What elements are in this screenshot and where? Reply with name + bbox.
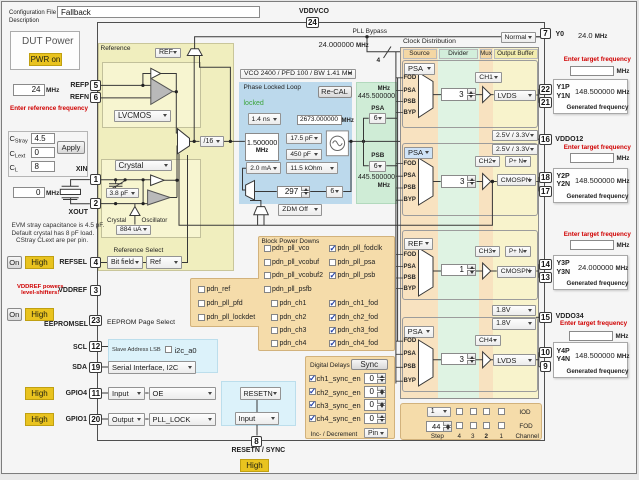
- textbox target y3: [570, 240, 614, 251]
- label ch4 PSB: [404, 364, 416, 370]
- spinner ch2 delay 0: [364, 386, 387, 398]
- checkbox pdn_pll_psb: [329, 272, 336, 279]
- pin 23: [89, 315, 102, 326]
- Y1 output box: [553, 79, 628, 114]
- label MHz y4: [616, 333, 629, 340]
- label XOUT: [60, 209, 88, 216]
- dropdown /16: [200, 136, 225, 148]
- label locked: [244, 100, 264, 107]
- label MHz psb: [370, 183, 390, 189]
- label 24.000000 MHz bypass: [319, 40, 369, 49]
- pin 10: [539, 347, 552, 358]
- node xin a: [114, 178, 117, 181]
- dropdown ch1 source PSA: [404, 63, 435, 75]
- label RESETN / SYNC: [232, 447, 286, 454]
- checkbox fod ch3: [470, 422, 477, 429]
- button On EEPROMSEL: [7, 308, 22, 321]
- label XIN: [67, 166, 88, 173]
- button On REFSEL: [7, 256, 22, 269]
- wire refp: [101, 84, 151, 86]
- label ch3 PSB: [404, 275, 416, 281]
- label Y0: [556, 31, 565, 38]
- wire zdm feedback path: [179, 154, 492, 225]
- wire pin20 gpio1: [102, 418, 109, 420]
- label Description: [9, 18, 39, 24]
- label SDA: [71, 364, 87, 371]
- dropdown CH3: [475, 246, 500, 257]
- wire psa divider taps: [364, 118, 398, 165]
- textbox target y2: [570, 153, 614, 164]
- dropdown PSB 6: [369, 161, 387, 172]
- label ch4 FOD: [404, 338, 417, 344]
- textbox 2673.000000: [297, 115, 342, 126]
- checkbox fod ch4: [456, 422, 463, 429]
- label MHz y3: [617, 242, 630, 249]
- checkbox ch4_sync_en: [309, 415, 316, 422]
- checkbox fod ch2: [483, 422, 490, 429]
- oscillator vco circle: [330, 136, 344, 150]
- bus width slash 4: [384, 47, 392, 59]
- wire xout internal: [101, 203, 148, 205]
- button High RESETN: [240, 459, 269, 473]
- pdn panel left: [190, 278, 259, 328]
- dropdown ch3 P+N-: [505, 246, 531, 257]
- label Step: [431, 433, 444, 440]
- label REFSEL: [58, 259, 87, 266]
- label CLext: [10, 149, 26, 160]
- dropdown Crystal: [115, 160, 172, 172]
- label i2c_a0: [175, 346, 197, 355]
- mux ch4 source: [419, 340, 434, 386]
- label generated y4: [567, 368, 629, 375]
- mux reference select: [178, 129, 190, 154]
- wire ch2 row: [433, 177, 540, 191]
- label ch2 BYP: [404, 197, 416, 203]
- label ch4 PSA: [404, 351, 416, 357]
- textbox target y4: [569, 331, 613, 342]
- node ch2 out: [491, 180, 494, 183]
- node xout c: [142, 202, 145, 205]
- node ps tap: [362, 140, 365, 143]
- checkbox pdn_pll_vcobuf: [264, 259, 271, 266]
- spinner ch4 delay 0: [364, 413, 387, 425]
- channel 1 outline: [402, 60, 538, 128]
- pin 3: [90, 285, 101, 296]
- checkbox pdn_pll_psa: [329, 259, 336, 266]
- dropdown LVCMOS: [114, 110, 171, 122]
- pin 15: [539, 312, 552, 323]
- label 445.500000 psb: [358, 174, 395, 181]
- textbox reference frequency 24: [13, 84, 45, 96]
- label VDDO12: [555, 136, 583, 143]
- spinner ch4 divider 3: [441, 353, 476, 365]
- green PS block: [356, 82, 397, 204]
- wire ch4 row: [433, 352, 540, 366]
- button High GPIO4: [25, 387, 54, 400]
- label generated y1: [567, 104, 629, 111]
- label Phase Locked Loop: [244, 84, 301, 91]
- dropdown Pin: [364, 428, 388, 439]
- label CStray: [10, 134, 28, 145]
- checkbox fod ch1: [498, 422, 505, 429]
- label ch3 PSA: [404, 264, 416, 270]
- node crystal join: [175, 179, 178, 182]
- label REFN: [67, 94, 89, 101]
- Y3 output box: [553, 255, 628, 290]
- header Source: [403, 49, 437, 59]
- button Re-CAL: [318, 86, 352, 98]
- dropdown 1.4 ns: [248, 113, 282, 125]
- spinner ch3 divider 1: [441, 264, 476, 276]
- spinner ch3 delay 0: [364, 399, 387, 411]
- buffer funnel zdm: [254, 207, 268, 215]
- wire ch1 input ticks: [396, 78, 403, 113]
- wire resetn to pin8: [256, 400, 258, 436]
- checkbox ch2_sync_en: [309, 388, 316, 395]
- checkbox pdn_pll_pfd: [198, 300, 205, 307]
- capacitor trim arrow: [107, 181, 125, 192]
- divider column band: [438, 48, 480, 398]
- wire funnel right leg to pll direct: [200, 56, 231, 142]
- wire pin12 scl: [102, 346, 109, 348]
- label 3: [471, 433, 475, 440]
- crystal XTAL plates: [62, 186, 79, 199]
- button High EEPROMSEL: [25, 308, 54, 321]
- buffer funnel reference out: [187, 49, 202, 56]
- dropdown ch3 source REF: [404, 238, 433, 250]
- wire crystal buffer out: [164, 146, 177, 198]
- label ch2 PSA: [404, 173, 416, 179]
- label Clock Distribution: [403, 38, 456, 45]
- pin 16: [539, 134, 552, 145]
- label MHz: [46, 87, 59, 94]
- checkbox pdn_ref: [198, 286, 205, 293]
- pin 6: [90, 92, 101, 103]
- dropdown 884 uA: [116, 225, 151, 236]
- node pll in: [229, 140, 232, 143]
- label MHz psa: [370, 86, 390, 92]
- buffer ch4 out: [483, 352, 491, 368]
- dropdown CH2: [475, 156, 500, 167]
- label Inc- / Decrement: [311, 431, 358, 438]
- label Digital Delays: [310, 362, 350, 369]
- dropdown Normal: [501, 32, 537, 43]
- wire ch4 input ticks: [396, 341, 403, 381]
- label ch1 BYP: [404, 110, 416, 116]
- wire ch1 row: [433, 89, 540, 103]
- label 445.500000 psa: [358, 93, 395, 100]
- label SCL: [72, 344, 87, 351]
- label enter target y2: [564, 144, 631, 151]
- dropdown VDDO12 2.5V first: [492, 130, 538, 141]
- checkbox pdn_pll_vcobuf2: [264, 272, 271, 279]
- dropdown Output GPIO1: [108, 413, 145, 426]
- pin 17: [539, 186, 552, 197]
- checkbox pdn_ch3: [271, 327, 278, 334]
- dropdown ch1 LVDS: [494, 90, 537, 101]
- wire ch2 input ticks: [396, 164, 403, 201]
- main diagram border: [97, 22, 545, 441]
- dropdown VCO 2400: [240, 69, 356, 80]
- Reference yellow block: [98, 43, 234, 271]
- wire pin19 sda: [102, 366, 109, 368]
- label Y3P Y3N: [557, 260, 571, 278]
- label VDDO34: [556, 313, 584, 320]
- label VDDREF powers level-shifters: [17, 284, 63, 297]
- label enter target y3: [564, 231, 631, 238]
- checkbox pdn_ch2_fod: [329, 314, 336, 321]
- label ch2 FOD: [404, 161, 417, 167]
- buffer big crystal: [148, 190, 171, 205]
- spinner 297: [277, 186, 310, 198]
- oscillator current source triangle: [130, 207, 140, 216]
- wire big buffer out: [173, 92, 178, 133]
- pin 11: [89, 388, 102, 399]
- wire small buffer out: [161, 74, 177, 92]
- dropdown 450 pF: [286, 149, 321, 160]
- label enter target y1: [564, 56, 631, 63]
- label generated y3: [567, 280, 629, 287]
- pin 13: [539, 272, 552, 283]
- label PSB: [371, 152, 384, 159]
- spinner ch2 divider 3: [441, 175, 477, 187]
- wire pin11 gpio4: [102, 392, 109, 394]
- label Y2P Y2N: [557, 173, 571, 191]
- dropdown CH1: [475, 72, 502, 83]
- buffer ch2 out: [483, 174, 491, 190]
- pdn panel right: [258, 236, 395, 351]
- node mux out: [193, 140, 196, 143]
- dropdown CH4: [475, 335, 501, 346]
- label 4 bus width: [377, 57, 381, 64]
- spinner step 44: [426, 421, 453, 432]
- wire vddo12 pin16: [538, 138, 540, 140]
- dropdown PLL_LOCK: [149, 413, 217, 426]
- mux column band: [479, 48, 493, 398]
- label Slave Address LSB: [112, 347, 161, 353]
- dropdown 6 feedback: [326, 186, 343, 198]
- pin 2: [90, 198, 101, 209]
- label ch4 BYP: [404, 378, 416, 384]
- pin 4: [90, 257, 101, 268]
- note CStray CLext per pin: [16, 237, 88, 244]
- dropdown Ref: [146, 256, 182, 269]
- note EVM stray capacitance: [12, 222, 105, 229]
- checkbox iod ch1: [498, 408, 505, 415]
- checkbox iod ch2: [483, 408, 490, 415]
- label Block Power Downs: [262, 238, 320, 245]
- label MHz crystal: [46, 190, 59, 197]
- label 24.0 MHz: [578, 31, 607, 40]
- wire funnel zdm legs: [251, 200, 265, 225]
- label enter target y4: [560, 320, 627, 327]
- dropdown VDDO12 2.5V second: [492, 144, 538, 155]
- channel 4 outline: [402, 317, 538, 392]
- wire vddo34 pin15: [536, 316, 539, 318]
- label DUT Power: [22, 36, 74, 47]
- PLL blue block: [239, 82, 353, 204]
- channel 3 outline: [402, 230, 538, 300]
- pin 20: [89, 414, 102, 425]
- Y2 output box: [553, 168, 628, 203]
- header Divider: [439, 49, 479, 59]
- label REFP: [67, 82, 89, 89]
- node xin c: [142, 178, 145, 181]
- label ch1 FOD: [404, 75, 417, 81]
- dash input-oe: [145, 392, 148, 394]
- label 1: [500, 433, 504, 440]
- checkbox ch3_sync_en: [309, 401, 316, 408]
- node buffer join: [175, 90, 178, 93]
- label MHz y1: [617, 68, 630, 75]
- wire zdm chain: [255, 143, 352, 192]
- dropdown step 1: [427, 407, 451, 417]
- digital delays panel: [305, 356, 395, 439]
- label ch2 PSB: [404, 185, 416, 191]
- dropdown VDDO34 1.8V first: [492, 305, 536, 317]
- label Oscillator small: [142, 217, 168, 224]
- inner box crystal: [101, 159, 201, 239]
- label VDDREF: [56, 287, 87, 294]
- bottom window strip: [0, 475, 639, 480]
- label Enter reference frequency: [10, 105, 88, 112]
- textbox 1.500000 MHz: [245, 133, 279, 161]
- dropdown 2.0 mA: [246, 162, 281, 174]
- buffer ch3 out: [483, 263, 491, 279]
- buffer big lvcmos: [151, 78, 173, 104]
- mux ch2 source: [419, 158, 434, 205]
- label CL: [10, 163, 18, 174]
- oscillator vco box: [326, 131, 348, 156]
- checkbox ch1_sync_en: [309, 375, 316, 382]
- Y4 output box: [553, 342, 628, 378]
- pdn panel seam patch: [257, 279, 260, 326]
- wire xin internal: [101, 179, 151, 181]
- serial interface blue box: [108, 339, 218, 373]
- header Output Buffer: [494, 49, 538, 59]
- label Channel: [516, 433, 539, 440]
- wire vco out: [348, 140, 400, 142]
- label 148.500000 y2: [575, 176, 629, 185]
- step panel: [400, 403, 542, 440]
- dropdown Input reset: [235, 412, 279, 425]
- label 4: [458, 433, 462, 440]
- button PWR on: [29, 53, 62, 67]
- checkbox iod ch4: [456, 408, 463, 415]
- label MHz vco: [342, 118, 354, 124]
- dropdown ZDM Off: [278, 204, 322, 216]
- CStray group box: [8, 131, 88, 178]
- wire ch3 input ticks: [396, 255, 403, 289]
- wire funnel left leg: [193, 56, 195, 142]
- buffer small crystal: [151, 175, 165, 186]
- pin 21: [539, 97, 552, 108]
- textbox crystal freq 0: [13, 187, 45, 199]
- label generated y2: [567, 193, 629, 200]
- label ch1 PSA: [404, 88, 416, 94]
- label Reference Select: [114, 247, 164, 254]
- dropdown REF top: [155, 48, 181, 59]
- wire pin4 refsel: [101, 262, 108, 264]
- label IOD: [519, 409, 530, 416]
- source column band: [401, 48, 438, 398]
- wire refp branch to small buffer: [143, 74, 151, 86]
- spinner ch1 delay 0: [364, 373, 387, 385]
- button Sync: [351, 359, 388, 371]
- pin 9: [540, 361, 551, 372]
- dropdown 3.8 pF: [106, 188, 140, 198]
- wire xin external: [71, 180, 90, 187]
- wire loop filter bracket: [243, 168, 247, 190]
- buffer small lvcmos: [151, 68, 161, 78]
- dash output-plllock: [145, 418, 148, 420]
- dropdown OE: [149, 387, 217, 400]
- label Configuration File: [9, 10, 56, 16]
- checkbox pdn_pll_vco: [264, 245, 271, 252]
- dropdown 11.5 kOhm: [286, 162, 337, 174]
- header Mux: [480, 49, 492, 59]
- checkbox pdn_pll_psfb: [264, 286, 271, 293]
- node xin b: [124, 178, 127, 181]
- label VDDVCO: [299, 8, 329, 15]
- button High REFSEL: [25, 256, 54, 269]
- label Y1P Y1N: [557, 84, 571, 102]
- dropdown ch4 LVDS: [493, 354, 536, 366]
- buffer ch1 out: [483, 87, 491, 103]
- wire ch3 row: [433, 264, 540, 277]
- label FOD: [519, 423, 532, 430]
- output buffer column band: [493, 48, 539, 398]
- pin 19: [89, 362, 102, 373]
- channel 2 outline: [402, 143, 538, 217]
- label ch3 FOD: [404, 252, 417, 258]
- label PLL Bypass: [353, 28, 387, 35]
- pin 18: [539, 172, 552, 183]
- dropdown Input GPIO4: [108, 387, 145, 400]
- textbox CL 8: [31, 161, 55, 172]
- wire refsel bitfield up: [182, 155, 188, 263]
- node refp branch: [141, 84, 144, 87]
- checkbox pdn_ch1_fod: [329, 300, 336, 307]
- label Crystal small: [107, 217, 126, 224]
- node PLL Bypass junction: [365, 35, 368, 38]
- textbox CLext 0: [31, 147, 55, 158]
- mux ch3 source: [419, 248, 434, 296]
- label 24.000000 y3: [578, 263, 628, 272]
- label Reference: [101, 45, 131, 52]
- dropdown Serial Interface I2C: [108, 361, 196, 374]
- pin 22: [539, 84, 552, 95]
- pin 14: [539, 259, 552, 270]
- label GPIO4: [62, 390, 87, 397]
- checkbox i2c_a0: [165, 346, 172, 353]
- gpio blue box: [221, 381, 296, 426]
- dropdown VDDO34 1.8V second: [492, 318, 536, 330]
- wire osc triangle stubs: [134, 204, 136, 225]
- pin 24: [306, 17, 319, 28]
- dropdown ch4 source PSA: [404, 326, 434, 338]
- wire bus vertical byp: [395, 52, 397, 384]
- dropdown PSA 6: [369, 113, 387, 124]
- mux ch1 source: [419, 73, 434, 118]
- inner box LVCMOS buffers: [102, 62, 201, 128]
- checkbox pdn_ch3_fod: [329, 327, 336, 334]
- note Default crystal: [12, 230, 95, 237]
- dropdown ch2 P+N-: [505, 156, 531, 167]
- wire refn: [101, 97, 151, 99]
- label 148.500000 y1: [575, 87, 629, 96]
- dropdown ch2 source PSA: [404, 147, 433, 159]
